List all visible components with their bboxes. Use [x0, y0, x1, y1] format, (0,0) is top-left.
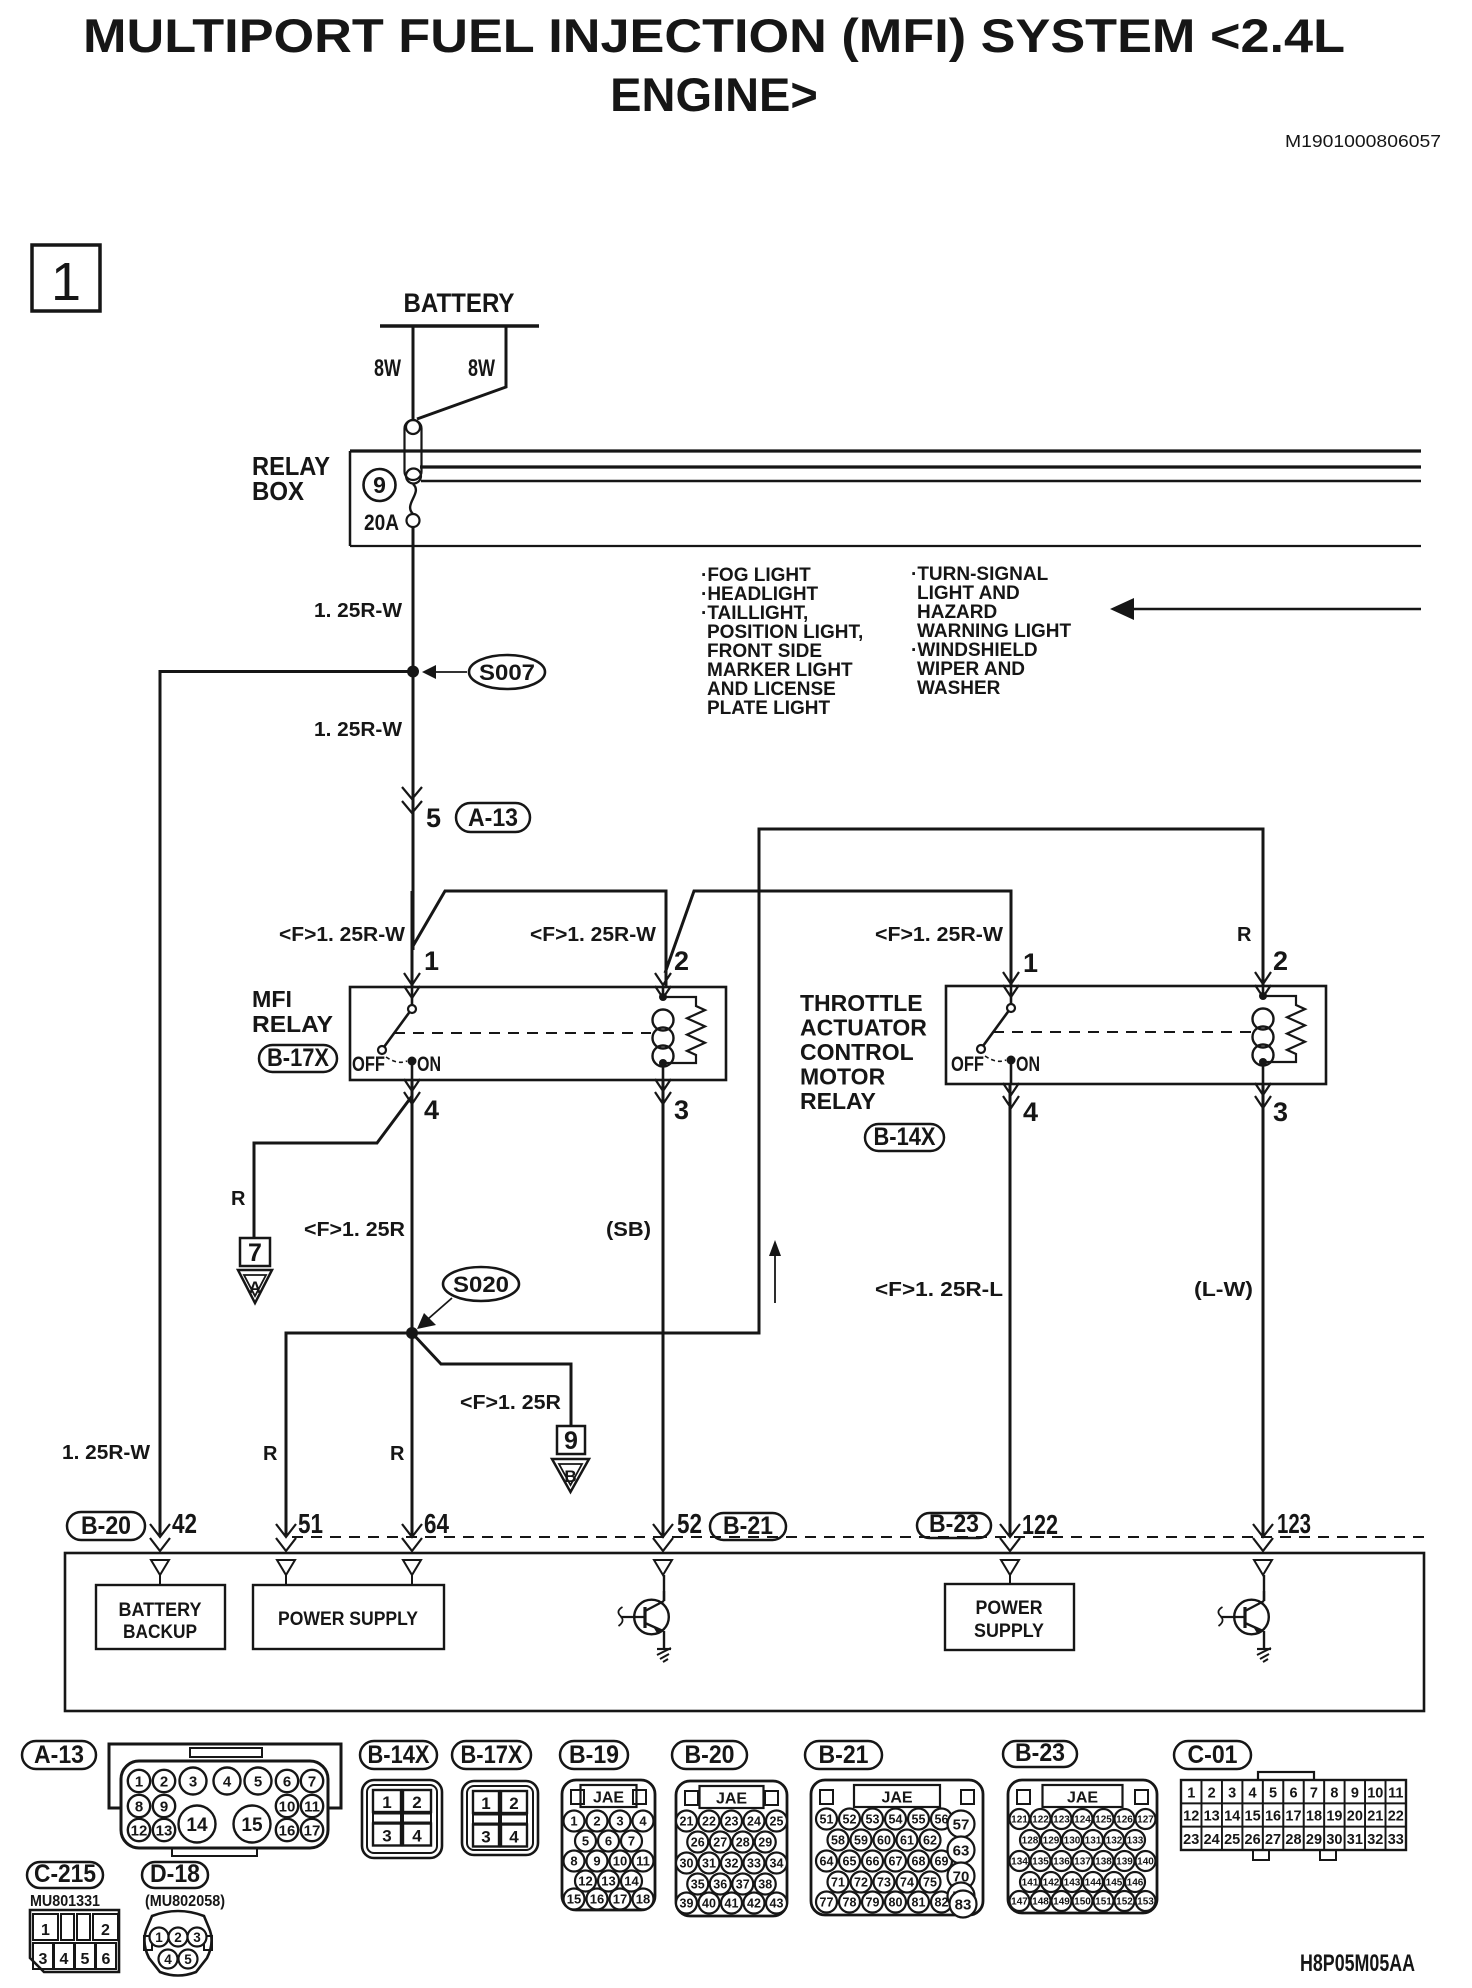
- svg-text:14: 14: [624, 1874, 639, 1889]
- power supply block 1: [253, 1585, 444, 1649]
- svg-text:17: 17: [613, 1892, 627, 1907]
- svg-text:1. 25R-W: 1. 25R-W: [62, 1442, 150, 1464]
- svg-text:18: 18: [1306, 1809, 1322, 1825]
- svg-text:130: 130: [1064, 1836, 1081, 1847]
- svg-text:11: 11: [636, 1854, 650, 1869]
- svg-text:153: 153: [1137, 1897, 1154, 1908]
- svg-text:139: 139: [1116, 1857, 1133, 1868]
- svg-text:33: 33: [747, 1857, 761, 1871]
- svg-text:7: 7: [1310, 1785, 1318, 1801]
- relay box enclosure: [350, 451, 1421, 546]
- svg-text:<F>1. 25R-W: <F>1. 25R-W: [279, 924, 405, 946]
- connector drawing C-215: [30, 1910, 119, 1972]
- svg-text:52: 52: [843, 1813, 857, 1827]
- splice label S020: [417, 1267, 519, 1329]
- svg-text:S007: S007: [479, 660, 535, 685]
- svg-text:<F>1. 25R-L: <F>1. 25R-L: [875, 1279, 1003, 1301]
- svg-text:41: 41: [725, 1897, 739, 1911]
- svg-text:M1901000806057: M1901000806057: [1285, 131, 1441, 151]
- svg-text:32: 32: [725, 1857, 739, 1871]
- svg-text:RELAY: RELAY: [252, 1011, 333, 1037]
- svg-text:13: 13: [601, 1874, 615, 1889]
- svg-text:62: 62: [923, 1834, 937, 1848]
- wire battery positive lead: [412, 326, 415, 420]
- svg-text:A-13: A-13: [468, 804, 518, 832]
- connector label B-20 bottom: [672, 1741, 747, 1769]
- connector label A-13: [456, 803, 530, 832]
- svg-text:136: 136: [1053, 1857, 1070, 1868]
- svg-text:128: 128: [1022, 1836, 1039, 1847]
- svg-text:B-23: B-23: [929, 1510, 979, 1538]
- svg-text:134: 134: [1011, 1857, 1028, 1868]
- svg-text:8: 8: [135, 1798, 143, 1815]
- svg-text:1: 1: [382, 1793, 391, 1812]
- svg-text:9: 9: [564, 1427, 578, 1455]
- svg-text:(SB): (SB): [606, 1219, 651, 1241]
- svg-text:(L-W): (L-W): [1194, 1279, 1253, 1301]
- svg-text:6: 6: [102, 1951, 111, 1968]
- svg-text:1. 25R-W: 1. 25R-W: [314, 600, 402, 622]
- svg-text:R: R: [390, 1443, 405, 1465]
- svg-text:146: 146: [1127, 1878, 1144, 1889]
- svg-text:R: R: [263, 1443, 278, 1465]
- svg-text:71: 71: [831, 1876, 845, 1890]
- svg-text:51: 51: [298, 1508, 323, 1539]
- svg-text:19: 19: [1326, 1809, 1342, 1825]
- svg-text:FRONT SIDE: FRONT SIDE: [707, 641, 822, 662]
- connector label B-21: [710, 1512, 786, 1540]
- wire throttle pin 4 to ECU pin 122: [1009, 1084, 1012, 1535]
- wire MFI pin2 to throttle relay pin 1: [665, 891, 1011, 986]
- ECU input triangle pin 64: [403, 1560, 421, 1585]
- svg-text:150: 150: [1074, 1897, 1091, 1908]
- svg-text:B-21: B-21: [819, 1741, 869, 1769]
- svg-text:57: 57: [953, 1817, 970, 1834]
- svg-text:152: 152: [1116, 1897, 1133, 1908]
- svg-text:20A: 20A: [364, 510, 399, 535]
- svg-text:4: 4: [424, 1095, 439, 1125]
- throttle relay OFF ON labels: [951, 1053, 1040, 1076]
- pin 42 terminal marks: [150, 1524, 170, 1537]
- svg-text:6: 6: [1289, 1785, 1297, 1801]
- svg-text:54: 54: [889, 1813, 903, 1827]
- svg-text:149: 149: [1053, 1897, 1070, 1908]
- svg-text:15: 15: [567, 1892, 581, 1907]
- svg-text:145: 145: [1106, 1878, 1123, 1889]
- wire MFI relay pin 4 down: [411, 1080, 414, 1333]
- svg-text:79: 79: [866, 1896, 880, 1910]
- page reference 7: [240, 1238, 270, 1267]
- svg-text:ON: ON: [1016, 1053, 1040, 1076]
- connector label B-17X: [259, 1044, 337, 1072]
- svg-text:123: 123: [1053, 1815, 1070, 1826]
- MFI relay OFF ON labels: [352, 1053, 441, 1076]
- wire S020 branch left to ECU pin 51: [286, 1333, 412, 1535]
- svg-text:1: 1: [1023, 948, 1038, 978]
- MFI relay name label: [252, 986, 333, 1037]
- svg-text:2: 2: [174, 1930, 182, 1945]
- transistor Q1: [618, 1591, 671, 1662]
- svg-text:60: 60: [877, 1834, 891, 1848]
- svg-text:4: 4: [412, 1827, 422, 1846]
- svg-text:78: 78: [843, 1896, 857, 1910]
- svg-text:21: 21: [680, 1815, 694, 1829]
- arrow to other circuits: [1110, 598, 1421, 620]
- svg-text:B-20: B-20: [81, 1512, 131, 1540]
- flow direction arrow: [769, 1240, 781, 1303]
- svg-text:12: 12: [131, 1822, 148, 1839]
- MFI relay pin numbers: [424, 946, 689, 1125]
- svg-text:15: 15: [1245, 1809, 1261, 1825]
- svg-text:23: 23: [1183, 1832, 1199, 1848]
- pin 64 terminal marks: [402, 1524, 422, 1537]
- node S007 splice: [407, 666, 419, 678]
- svg-text:JAE: JAE: [593, 1790, 624, 1807]
- svg-text:58: 58: [831, 1834, 845, 1848]
- svg-text:7: 7: [628, 1834, 635, 1849]
- svg-text:ENGINE>: ENGINE>: [610, 68, 818, 121]
- svg-text:1: 1: [1187, 1785, 1195, 1801]
- svg-text:1: 1: [41, 1922, 50, 1939]
- svg-text:HAZARD: HAZARD: [917, 602, 997, 623]
- svg-text:8W: 8W: [468, 355, 495, 382]
- svg-text:BACKUP: BACKUP: [123, 1622, 197, 1643]
- svg-text:2: 2: [1208, 1785, 1216, 1801]
- svg-text:143: 143: [1064, 1878, 1081, 1889]
- svg-text:JAE: JAE: [881, 1790, 912, 1807]
- svg-text:4: 4: [164, 1952, 172, 1967]
- svg-text:11: 11: [304, 1798, 320, 1815]
- MFI relay K1: [350, 973, 726, 1104]
- svg-text:(MU802058): (MU802058): [145, 1893, 225, 1910]
- svg-text:30: 30: [1326, 1832, 1342, 1848]
- svg-text:4: 4: [639, 1814, 647, 1829]
- svg-text:74: 74: [900, 1876, 914, 1890]
- svg-text:<F>1. 25R-W: <F>1. 25R-W: [530, 924, 656, 946]
- ECU input triangle pin 42: [151, 1560, 169, 1585]
- svg-text:29: 29: [1306, 1832, 1322, 1848]
- svg-text:27: 27: [1265, 1832, 1281, 1848]
- svg-text:2: 2: [101, 1922, 110, 1939]
- page reference arrow B: [552, 1459, 589, 1492]
- svg-text:7: 7: [308, 1773, 316, 1790]
- svg-text:4: 4: [60, 1951, 69, 1968]
- connector drawing C-01: [1181, 1772, 1406, 1860]
- svg-text:23: 23: [725, 1815, 739, 1829]
- svg-text:142: 142: [1043, 1878, 1060, 1889]
- pin 122 terminal marks: [1000, 1524, 1020, 1537]
- svg-text:151: 151: [1095, 1897, 1112, 1908]
- svg-text:42: 42: [747, 1897, 761, 1911]
- svg-text:80: 80: [889, 1896, 903, 1910]
- svg-text:68: 68: [912, 1855, 926, 1869]
- engine control module box: [65, 1553, 1424, 1711]
- wire branch left at S007: [160, 672, 413, 1536]
- pin 123 terminal marks: [1253, 1524, 1273, 1537]
- svg-text:29: 29: [758, 1836, 772, 1850]
- svg-text:22: 22: [702, 1815, 716, 1829]
- svg-text:55: 55: [912, 1813, 926, 1827]
- battery B1: [374, 288, 539, 382]
- svg-text:·FOG LIGHT: ·FOG LIGHT: [701, 565, 811, 586]
- svg-text:1: 1: [155, 1930, 163, 1945]
- svg-text:141: 141: [1022, 1878, 1039, 1889]
- connector label B-23 bottom: [1003, 1739, 1077, 1767]
- connector drawing B-19: [562, 1780, 655, 1910]
- connector label B-14X: [865, 1123, 944, 1151]
- svg-text:10: 10: [279, 1798, 296, 1815]
- svg-text:R: R: [1237, 924, 1252, 946]
- svg-text:WARNING LIGHT: WARNING LIGHT: [917, 621, 1071, 642]
- svg-text:61: 61: [900, 1834, 914, 1848]
- svg-text:8: 8: [1330, 1785, 1338, 1801]
- svg-text:5: 5: [426, 803, 441, 833]
- page reference arrow A: [238, 1270, 272, 1303]
- wire MFI relay pin 3 down to ECU pin 52: [662, 1080, 665, 1535]
- svg-text:8W: 8W: [374, 355, 401, 382]
- svg-text:<F>1. 25R: <F>1. 25R: [460, 1392, 562, 1414]
- connector drawing B-17X: [462, 1781, 538, 1855]
- svg-text:122: 122: [1022, 1509, 1058, 1540]
- svg-text:·WINDSHIELD: ·WINDSHIELD: [911, 640, 1038, 661]
- svg-text:3: 3: [39, 1951, 48, 1968]
- connector drawing B-21: [811, 1780, 983, 1918]
- svg-text:LIGHT AND: LIGHT AND: [917, 583, 1020, 604]
- svg-text:·HEADLIGHT: ·HEADLIGHT: [701, 584, 819, 605]
- svg-text:B-21: B-21: [723, 1512, 773, 1540]
- svg-text:4: 4: [509, 1828, 519, 1847]
- svg-text:PLATE LIGHT: PLATE LIGHT: [707, 698, 831, 719]
- svg-text:6: 6: [283, 1773, 291, 1790]
- svg-text:26: 26: [1245, 1832, 1261, 1848]
- svg-text:MFI: MFI: [252, 986, 292, 1012]
- svg-text:25: 25: [770, 1815, 784, 1829]
- ECU pin numbers: [172, 1508, 1311, 1540]
- svg-text:B: B: [564, 1467, 576, 1486]
- svg-text:3: 3: [616, 1814, 623, 1829]
- svg-text:13: 13: [1204, 1809, 1220, 1825]
- svg-text:9: 9: [1351, 1785, 1359, 1801]
- svg-text:JAE: JAE: [1067, 1790, 1098, 1807]
- throttle relay pin numbers: [1023, 946, 1288, 1127]
- svg-text:31: 31: [1347, 1832, 1363, 1848]
- svg-text:S020: S020: [453, 1272, 509, 1297]
- svg-text:WASHER: WASHER: [917, 678, 1001, 699]
- svg-text:52: 52: [677, 1508, 702, 1539]
- bus bar wires in relay box: [420, 467, 1421, 481]
- svg-text:CONTROL: CONTROL: [800, 1039, 914, 1065]
- svg-text:BATTERY: BATTERY: [119, 1600, 202, 1621]
- svg-text:D-18: D-18: [150, 1860, 200, 1888]
- svg-text:121: 121: [1011, 1815, 1028, 1826]
- svg-text:1: 1: [570, 1814, 577, 1829]
- svg-text:33: 33: [1388, 1832, 1404, 1848]
- power supply block 2: [945, 1584, 1074, 1650]
- svg-text:147: 147: [1011, 1897, 1028, 1908]
- svg-text:2: 2: [593, 1814, 600, 1829]
- svg-text:125: 125: [1095, 1815, 1112, 1826]
- wire battery second lead: [417, 326, 506, 419]
- svg-text:24: 24: [747, 1815, 761, 1829]
- connector label C-01 bottom: [1174, 1741, 1251, 1769]
- wire branch from pin 4 to page ref 7A: [254, 1096, 412, 1238]
- svg-text:12: 12: [578, 1874, 592, 1889]
- svg-text:RELAY: RELAY: [800, 1088, 876, 1114]
- svg-text:B-14X: B-14X: [874, 1123, 936, 1151]
- svg-text:16: 16: [590, 1892, 604, 1907]
- svg-text:1. 25R-W: 1. 25R-W: [314, 719, 402, 741]
- svg-text:1: 1: [135, 1773, 143, 1790]
- ECU input triangle pin 122: [1001, 1560, 1019, 1584]
- svg-text:POSITION LIGHT,: POSITION LIGHT,: [707, 622, 863, 643]
- svg-text:ON: ON: [417, 1053, 441, 1076]
- svg-text:77: 77: [820, 1896, 834, 1910]
- svg-text:69: 69: [935, 1855, 949, 1869]
- svg-text:28: 28: [736, 1836, 750, 1850]
- svg-text:40: 40: [702, 1897, 716, 1911]
- svg-text:MULTIPORT FUEL INJECTION (MFI): MULTIPORT FUEL INJECTION (MFI) SYSTEM <2…: [83, 9, 1345, 62]
- svg-text:64: 64: [424, 1508, 449, 1539]
- svg-text:1: 1: [51, 252, 81, 312]
- svg-text:3: 3: [481, 1828, 490, 1847]
- svg-text:67: 67: [889, 1855, 903, 1869]
- svg-text:65: 65: [843, 1855, 857, 1869]
- svg-text:5: 5: [1269, 1785, 1277, 1801]
- svg-text:3: 3: [1273, 1097, 1288, 1127]
- svg-text:10: 10: [613, 1854, 627, 1869]
- svg-text:24: 24: [1204, 1832, 1220, 1848]
- svg-text:3: 3: [189, 1773, 197, 1790]
- svg-text:123: 123: [1277, 1508, 1311, 1539]
- pin 51 terminal marks: [276, 1524, 296, 1537]
- svg-text:BOX: BOX: [252, 476, 305, 506]
- svg-text:30: 30: [680, 1857, 694, 1871]
- svg-text:12: 12: [1183, 1809, 1199, 1825]
- svg-text:32: 32: [1367, 1832, 1383, 1848]
- svg-text:B-23: B-23: [1015, 1739, 1065, 1767]
- svg-text:129: 129: [1043, 1836, 1060, 1847]
- svg-text:28: 28: [1285, 1832, 1301, 1848]
- ECU input triangle pin 51: [277, 1560, 295, 1585]
- svg-text:43: 43: [770, 1897, 784, 1911]
- svg-text:72: 72: [854, 1876, 868, 1890]
- svg-text:25: 25: [1224, 1832, 1240, 1848]
- svg-text:POWER: POWER: [976, 1598, 1043, 1619]
- svg-text:JAE: JAE: [716, 1791, 747, 1808]
- connector label B-23: [917, 1510, 991, 1538]
- svg-text:35: 35: [691, 1878, 705, 1892]
- svg-text:2: 2: [412, 1793, 421, 1812]
- svg-text:8: 8: [570, 1854, 577, 1869]
- inline connector A-13 pass-through: [402, 787, 441, 833]
- svg-text:B-17X: B-17X: [267, 1044, 329, 1072]
- fuse 9 20A: [364, 469, 420, 535]
- svg-text:53: 53: [866, 1813, 880, 1827]
- svg-text:131: 131: [1085, 1836, 1102, 1847]
- connector drawing A-13: [109, 1744, 341, 1856]
- svg-text:3: 3: [382, 1827, 391, 1846]
- wire 1.25R-W main feed: [314, 527, 413, 987]
- svg-text:6: 6: [605, 1834, 612, 1849]
- connector drawing D-18: [144, 1911, 212, 1976]
- connector label B-20: [67, 1512, 145, 1540]
- svg-text:B-20: B-20: [685, 1741, 735, 1769]
- svg-text:2: 2: [674, 946, 689, 976]
- svg-text:10: 10: [1367, 1785, 1383, 1801]
- svg-text:POWER SUPPLY: POWER SUPPLY: [278, 1609, 418, 1630]
- svg-text:21: 21: [1367, 1809, 1383, 1825]
- svg-text:7: 7: [248, 1239, 262, 1267]
- connector label A-13 bottom: [22, 1741, 96, 1769]
- svg-text:2: 2: [160, 1773, 168, 1790]
- svg-text:OFF: OFF: [352, 1053, 385, 1076]
- connector drawing B-14X: [362, 1780, 442, 1858]
- node S020 splice: [406, 1327, 418, 1339]
- svg-text:17: 17: [1285, 1809, 1301, 1825]
- svg-text:20: 20: [1347, 1809, 1363, 1825]
- svg-text:R: R: [231, 1188, 246, 1210]
- svg-text:14: 14: [186, 1815, 208, 1836]
- connector label B-21 bottom: [805, 1741, 882, 1769]
- svg-text:B-14X: B-14X: [368, 1741, 430, 1769]
- svg-text:1: 1: [481, 1794, 490, 1813]
- relay box label: [252, 451, 330, 506]
- sheet number box 1: [32, 245, 100, 312]
- svg-text:17: 17: [304, 1822, 321, 1839]
- svg-text:39: 39: [680, 1897, 694, 1911]
- connector drawing B-20: [676, 1781, 787, 1916]
- svg-text:26: 26: [691, 1836, 705, 1850]
- svg-text:133: 133: [1127, 1836, 1144, 1847]
- svg-text:BATTERY: BATTERY: [404, 288, 515, 318]
- connector label B-17X bottom: [452, 1741, 531, 1769]
- fog light circuit list: [701, 565, 863, 719]
- svg-text:3: 3: [1228, 1785, 1236, 1801]
- svg-text:·TURN-SIGNAL: ·TURN-SIGNAL: [911, 564, 1049, 585]
- connector label B-14X bottom: [360, 1741, 437, 1769]
- svg-text:AND LICENSE: AND LICENSE: [707, 679, 836, 700]
- svg-text:144: 144: [1085, 1878, 1102, 1889]
- svg-text:3: 3: [193, 1930, 201, 1945]
- wire S020 branch right to throttle relay pin 2: [412, 829, 1263, 1333]
- svg-text:16: 16: [279, 1822, 296, 1839]
- svg-text:22: 22: [1388, 1809, 1404, 1825]
- turn signal circuit list: [911, 564, 1071, 699]
- svg-text:MARKER LIGHT: MARKER LIGHT: [707, 660, 853, 681]
- svg-text:11: 11: [1388, 1785, 1403, 1801]
- svg-text:<F>1. 25R: <F>1. 25R: [304, 1219, 406, 1241]
- connector joint above fuse: [405, 420, 422, 484]
- svg-text:37: 37: [736, 1878, 750, 1892]
- svg-text:27: 27: [713, 1836, 727, 1850]
- svg-text:15: 15: [241, 1815, 263, 1836]
- pin 52 terminal marks: [653, 1524, 673, 1537]
- svg-text:51: 51: [820, 1813, 834, 1827]
- svg-text:14: 14: [1224, 1809, 1240, 1825]
- svg-text:13: 13: [156, 1822, 173, 1839]
- battery backup block: [96, 1585, 225, 1649]
- wire main down to ECU pin 64: [411, 1333, 414, 1535]
- svg-text:A: A: [249, 1278, 261, 1297]
- svg-text:36: 36: [713, 1878, 727, 1892]
- svg-text:135: 135: [1032, 1857, 1049, 1868]
- svg-text:<F>1. 25R-W: <F>1. 25R-W: [875, 924, 1003, 946]
- svg-text:H8P05M05AA: H8P05M05AA: [1300, 1950, 1415, 1977]
- svg-text:140: 140: [1137, 1857, 1154, 1868]
- svg-text:16: 16: [1265, 1809, 1281, 1825]
- svg-text:138: 138: [1095, 1857, 1112, 1868]
- svg-text:132: 132: [1106, 1836, 1123, 1847]
